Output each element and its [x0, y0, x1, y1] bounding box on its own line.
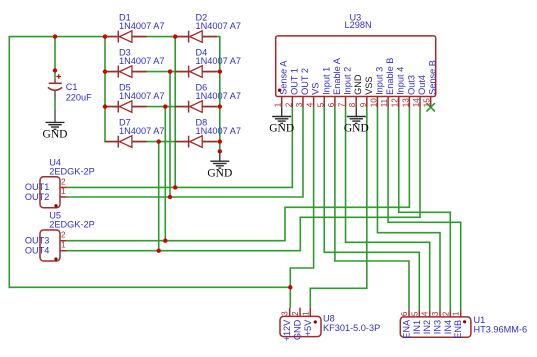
svg-text:Out3: Out3 — [406, 75, 416, 95]
svg-text:IN4: IN4 — [443, 320, 453, 334]
svg-text:C1: C1 — [66, 82, 78, 92]
U1 pin 2 stub — [449, 310, 451, 317]
svg-text:IN2: IN2 — [422, 320, 432, 334]
diode D2 1N4007 A7 — [175, 13, 241, 43]
diode D3 1N4007 A7 — [105, 48, 164, 78]
diode D4 1N4007 A7 — [175, 48, 241, 78]
wire net OUT2: U4 pin1 to U3 pin3 — [67, 107, 303, 197]
svg-text:1N4007 A7: 1N4007 A7 — [196, 91, 241, 101]
U3 pin 6 stub — [334, 96, 336, 107]
U3 pin 3 stub — [302, 96, 304, 107]
U8 pin 3 stub — [289, 308, 291, 317]
wire +12V left rail, top rail and right diode column — [9, 37, 220, 289]
svg-text:1N4007 A7: 1N4007 A7 — [196, 126, 241, 136]
svg-text:1N4007 A7: 1N4007 A7 — [119, 56, 164, 66]
svg-text:Enable A: Enable A — [332, 57, 342, 95]
svg-text:1N4007 A7: 1N4007 A7 — [119, 21, 164, 31]
svg-text:5: 5 — [316, 102, 325, 107]
svg-text:HT3.96MM-6: HT3.96MM-6 — [474, 324, 528, 334]
wire net +5V: U3 pin9 VSS to U8 pin1 — [310, 107, 367, 308]
svg-text:OUT 2: OUT 2 — [300, 68, 310, 95]
U5 pin-1 marker dot — [54, 257, 57, 260]
svg-text:3: 3 — [281, 311, 290, 316]
U3 pin 5 stub — [323, 96, 325, 107]
svg-text:ENB: ENB — [453, 320, 463, 339]
U8 pin 1 stub — [309, 308, 311, 317]
svg-text:IN1: IN1 — [412, 320, 422, 334]
wire C1 top branch — [54, 36, 56, 79]
diode D1 1N4007 A7 — [105, 13, 164, 43]
svg-text:2: 2 — [61, 231, 66, 240]
ground symbol under C1 — [54, 109, 56, 123]
wire net OUT1: U4 pin2 to U3 pin2 — [67, 107, 293, 187]
wire OUT1 junction vertical (row1) — [174, 37, 176, 188]
U4 pin 1 stub — [60, 196, 67, 198]
U3 pin-1 marker dot — [278, 89, 281, 92]
svg-text:4: 4 — [306, 102, 315, 107]
ground symbol under diode right column — [219, 151, 221, 162]
U3 pin 2 stub — [291, 96, 293, 107]
svg-text:4: 4 — [421, 311, 430, 316]
connector U4 2EDGK-2P box — [40, 177, 60, 208]
svg-text:1N4007 A7: 1N4007 A7 — [196, 21, 241, 31]
U3 pin 9 stub — [366, 96, 368, 107]
op-amp U3 L298N box — [276, 36, 436, 97]
wire OUT4 junction vertical (row4) — [158, 142, 160, 251]
svg-text:GND: GND — [207, 167, 232, 179]
U1 pin 6 stub — [408, 310, 410, 317]
svg-text:OUT4: OUT4 — [25, 245, 50, 255]
svg-text:6: 6 — [400, 311, 409, 316]
svg-text:GND: GND — [43, 129, 68, 141]
svg-text:6: 6 — [327, 102, 336, 107]
wire +12V bottom rail — [9, 286, 291, 288]
wire net IN4: U3 pin12 to U1 pin2 — [399, 107, 451, 310]
svg-text:10: 10 — [369, 98, 378, 108]
wire net OUT4: U5 pin1 to U3 pin14 — [67, 107, 420, 251]
diode D8 1N4007 A7 — [175, 118, 241, 148]
svg-text:11: 11 — [380, 98, 389, 107]
U1 pin 3 stub — [439, 310, 441, 317]
svg-text:Out4: Out4 — [417, 75, 427, 95]
svg-text:9: 9 — [359, 102, 368, 107]
wire C1 to GND segment — [54, 100, 56, 109]
svg-text:12: 12 — [391, 98, 400, 108]
svg-text:U1: U1 — [474, 315, 486, 325]
svg-text:OUT3: OUT3 — [25, 235, 50, 245]
svg-text:220uF: 220uF — [66, 93, 92, 103]
svg-text:GND: GND — [344, 123, 369, 135]
svg-text:3: 3 — [431, 311, 440, 316]
svg-text:L298N: L298N — [345, 20, 372, 30]
svg-text:1N4007 A7: 1N4007 A7 — [196, 56, 241, 66]
svg-text:2EDGK-2P: 2EDGK-2P — [49, 166, 94, 176]
svg-text:1: 1 — [61, 187, 66, 196]
svg-text:Input 2: Input 2 — [343, 67, 353, 95]
U5 pin 2 stub — [60, 240, 67, 242]
wire net ENA: U3 pin6 to U1 pin6 — [335, 107, 409, 310]
junction dots — [53, 34, 57, 38]
wire OUT3 junction vertical (row3) — [164, 107, 166, 241]
U3 pin 11 stub — [387, 96, 389, 107]
svg-text:5: 5 — [410, 311, 419, 316]
svg-text:2: 2 — [291, 311, 300, 316]
svg-text:Input 4: Input 4 — [396, 67, 406, 95]
svg-text:8: 8 — [348, 102, 357, 107]
svg-text:13: 13 — [401, 98, 410, 108]
wire OUT2 junction vertical (row2) — [169, 72, 171, 197]
U3 pin 7 stub — [345, 96, 347, 107]
diode D6 1N4007 A7 — [175, 83, 241, 113]
U8 pin-1 marker dot — [314, 320, 317, 323]
U4 pin-1 marker dot — [54, 204, 57, 207]
wire net OUT3: U5 pin2 to U3 pin13 — [67, 107, 410, 241]
svg-text:OUT 1: OUT 1 — [289, 68, 299, 95]
connector U8 KF301-5.0-3P box — [280, 316, 321, 336]
U3 pin 10 stub — [376, 96, 378, 107]
svg-text:1: 1 — [301, 311, 310, 316]
U3 pin 14 stub — [419, 96, 421, 107]
wire net IN3: U3 pin10 to U1 pin3 — [377, 107, 440, 310]
wire diode row 2 — [104, 71, 220, 73]
svg-text:OUT2: OUT2 — [25, 192, 50, 202]
svg-text:KF301-5.0-3P: KF301-5.0-3P — [323, 323, 380, 333]
svg-text:2: 2 — [441, 311, 450, 316]
U1 pin 4 stub — [429, 310, 431, 317]
svg-text:GND: GND — [269, 123, 294, 135]
svg-text:2EDGK-2P: 2EDGK-2P — [49, 220, 94, 230]
svg-text:VSS: VSS — [364, 77, 374, 95]
svg-text:U8: U8 — [323, 314, 335, 324]
U1 pin 1 stub — [460, 310, 462, 317]
svg-text:+12V: +12V — [282, 319, 292, 342]
svg-text:1N4007 A7: 1N4007 A7 — [119, 126, 164, 136]
wire net ENB: U3 pin11 to U1 pin1 — [388, 107, 461, 310]
U3 pin 15 stub — [430, 96, 432, 107]
svg-text:1: 1 — [61, 241, 66, 250]
svg-text:ENA: ENA — [402, 319, 412, 339]
wire left diode column vertical — [104, 36, 106, 142]
svg-text:1: 1 — [452, 311, 461, 316]
svg-text:7: 7 — [338, 102, 347, 107]
svg-text:14: 14 — [412, 98, 421, 108]
wire diode row 4 — [104, 141, 220, 143]
U3 pin 8 stub — [355, 96, 357, 107]
U3 pin 4 stub — [313, 96, 315, 107]
ground symbol at U3 pin 8 — [355, 107, 357, 117]
svg-text:2: 2 — [284, 102, 293, 107]
svg-text:Input 1: Input 1 — [321, 67, 331, 95]
U3 pin 1 stub — [281, 96, 283, 107]
diode D5 1N4007 A7 — [105, 83, 164, 113]
U3 pin 12 stub — [398, 96, 400, 107]
ground symbol at U3 pin 1 — [281, 107, 283, 117]
svg-text:GND: GND — [293, 319, 303, 340]
U4 pin 2 stub — [60, 186, 67, 188]
connector U1 HT3.96MM-6 box — [400, 317, 471, 337]
svg-text:2: 2 — [61, 177, 66, 186]
capacitor C1 220uF — [48, 74, 92, 102]
U1 pin-1 marker dot — [463, 320, 466, 323]
U1 pin 5 stub — [418, 310, 420, 317]
wire net IN2: U3 pin7 to U1 pin4 — [346, 107, 430, 310]
wire diode row 3 — [104, 106, 220, 108]
svg-text:3: 3 — [295, 102, 304, 107]
svg-text:Input 3: Input 3 — [374, 67, 384, 95]
svg-text:+5V: +5V — [303, 319, 313, 336]
svg-text:VS: VS — [311, 83, 321, 95]
svg-text:1N4007 A7: 1N4007 A7 — [119, 91, 164, 101]
svg-text:Enable B: Enable B — [385, 58, 395, 95]
svg-text:OUT1: OUT1 — [25, 182, 50, 192]
svg-text:GND: GND — [353, 74, 363, 95]
svg-text:IN3: IN3 — [433, 320, 443, 334]
U5 pin 1 stub — [60, 250, 67, 252]
U8 pin 2 stub — [299, 308, 301, 317]
svg-text:Sense A: Sense A — [279, 60, 289, 95]
connector U5 2EDGK-2P box — [40, 230, 60, 261]
diode D7 1N4007 A7 — [105, 118, 164, 148]
wire net IN1: U3 pin5 to U1 pin5 — [324, 107, 419, 310]
wire net +12V: U3 pin4 VS to U8 pin3 — [290, 107, 313, 308]
no-connect X at U3 pin 15 — [427, 103, 435, 111]
svg-text:1: 1 — [274, 102, 283, 107]
svg-text:Sense B: Sense B — [428, 60, 438, 95]
U3 pin 13 stub — [408, 96, 410, 107]
